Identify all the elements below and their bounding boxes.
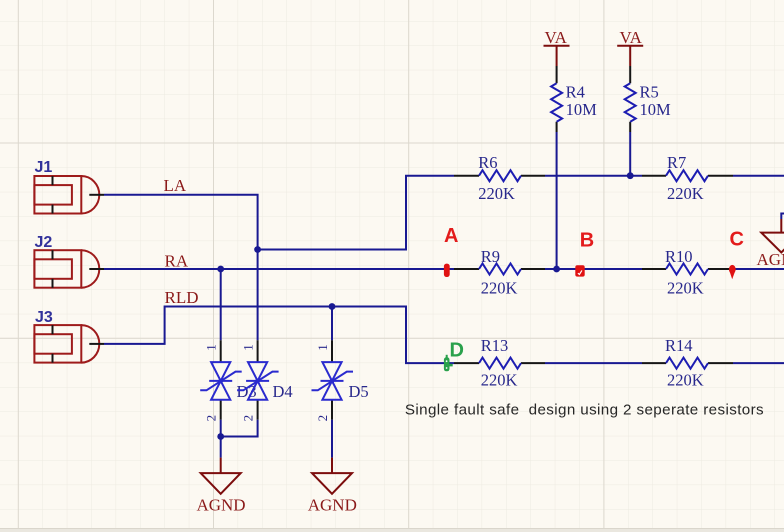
svg-text:R5: R5	[640, 83, 659, 102]
ground AGND (middle)	[312, 458, 352, 494]
svg-text:LA: LA	[164, 176, 187, 195]
junction D3-D4 ground	[217, 433, 224, 440]
node B marker	[575, 265, 584, 276]
svg-text:220K: 220K	[481, 279, 518, 298]
svg-text:C: C	[730, 228, 744, 250]
svg-text:A: A	[444, 225, 458, 247]
wire LA node down to D4	[257, 250, 259, 341]
svg-text:R9: R9	[481, 247, 500, 266]
svg-text:RA: RA	[165, 252, 189, 271]
wire LA from J1 down to node	[104, 195, 258, 250]
pin 1 of J2	[89, 268, 104, 270]
svg-text:1: 1	[204, 344, 219, 351]
svg-text:R6: R6	[478, 153, 497, 172]
svg-text:220K: 220K	[667, 279, 704, 298]
svg-text:1: 1	[315, 344, 330, 351]
wire from R5 down to LA row	[629, 132, 631, 176]
wire RA row middle	[545, 268, 642, 270]
pin 1 of J1	[89, 194, 104, 196]
connector J2	[34, 250, 99, 288]
svg-text:220K: 220K	[481, 371, 518, 390]
ground AGND (right)	[761, 219, 784, 253]
resistor R10	[642, 264, 733, 275]
svg-text:D4: D4	[273, 382, 293, 401]
svg-text:VA: VA	[545, 28, 568, 47]
svg-text:R13: R13	[481, 336, 509, 355]
junction LA node	[254, 246, 261, 253]
svg-text:AGND: AGND	[308, 496, 357, 515]
wire RLD from J3 up and right to R13 row	[104, 307, 454, 364]
diode D3	[200, 340, 242, 419]
resistor R9	[454, 264, 545, 275]
svg-text:Single fault safe design usin: Single fault safe design using 2 seperat…	[405, 402, 764, 419]
power symbol VA (right)	[617, 28, 643, 66]
svg-text:220K: 220K	[667, 184, 704, 203]
svg-text:2: 2	[204, 415, 219, 422]
svg-text:VA: VA	[620, 28, 643, 47]
wire LA row middle	[545, 175, 642, 177]
resistor R5	[625, 66, 636, 132]
resistor R6	[454, 170, 545, 181]
connector J3	[34, 325, 99, 363]
resistor R4	[551, 66, 562, 132]
power symbol VA (left)	[544, 28, 570, 66]
node C marker	[729, 265, 736, 279]
svg-text:D5: D5	[349, 382, 369, 401]
wire RA row right	[733, 268, 784, 270]
svg-text:220K: 220K	[667, 371, 704, 390]
svg-text:R7: R7	[667, 153, 686, 172]
diode D5	[312, 340, 354, 419]
connector J1	[34, 176, 99, 214]
wire D3 bottom to ground	[220, 420, 222, 458]
resistor R7	[642, 170, 733, 181]
wire to AGND at right edge	[781, 214, 784, 220]
svg-text:J3: J3	[35, 309, 53, 326]
diode D4	[237, 340, 279, 419]
svg-text:10M: 10M	[640, 100, 672, 119]
svg-text:220K: 220K	[478, 184, 515, 203]
junction LA to R5	[627, 172, 634, 179]
wire from R4 down to RA row	[556, 132, 558, 269]
svg-text:2: 2	[315, 415, 330, 422]
node D marker	[444, 355, 453, 372]
svg-text:2: 2	[241, 415, 256, 422]
svg-text:R4: R4	[566, 83, 585, 102]
wire D4 bottom joining D3	[221, 420, 258, 437]
node A marker	[444, 264, 450, 277]
svg-text:R14: R14	[665, 336, 693, 355]
svg-text:RLD: RLD	[165, 288, 199, 307]
svg-text:J1: J1	[35, 159, 53, 176]
svg-text:AGND: AGND	[757, 250, 784, 269]
pin 1 of J3	[89, 343, 104, 345]
wire RLD row right	[733, 362, 784, 364]
svg-text:10M: 10M	[566, 100, 598, 119]
svg-text:AGND: AGND	[196, 496, 245, 515]
svg-text:R10: R10	[665, 247, 693, 266]
svg-text:D: D	[450, 339, 464, 361]
wire RLD row middle	[545, 362, 642, 364]
resistor R13	[454, 358, 545, 369]
svg-text:J2: J2	[35, 234, 53, 251]
junction RA to D3	[217, 266, 224, 273]
resistor R14	[642, 358, 733, 369]
junction RLD to D5	[329, 303, 336, 310]
ground AGND (left)	[201, 458, 241, 494]
wire RLD node down to D5	[331, 307, 333, 341]
svg-text:1: 1	[241, 344, 256, 351]
svg-text:B: B	[580, 230, 594, 252]
wire LA branch up to R6 row	[258, 176, 454, 250]
junction RA to R4	[553, 266, 560, 273]
wire RA node down to D3	[220, 269, 222, 340]
wire RA from J2	[104, 268, 454, 270]
wire D5 bottom to ground	[331, 420, 333, 458]
wire LA row right	[733, 175, 784, 177]
